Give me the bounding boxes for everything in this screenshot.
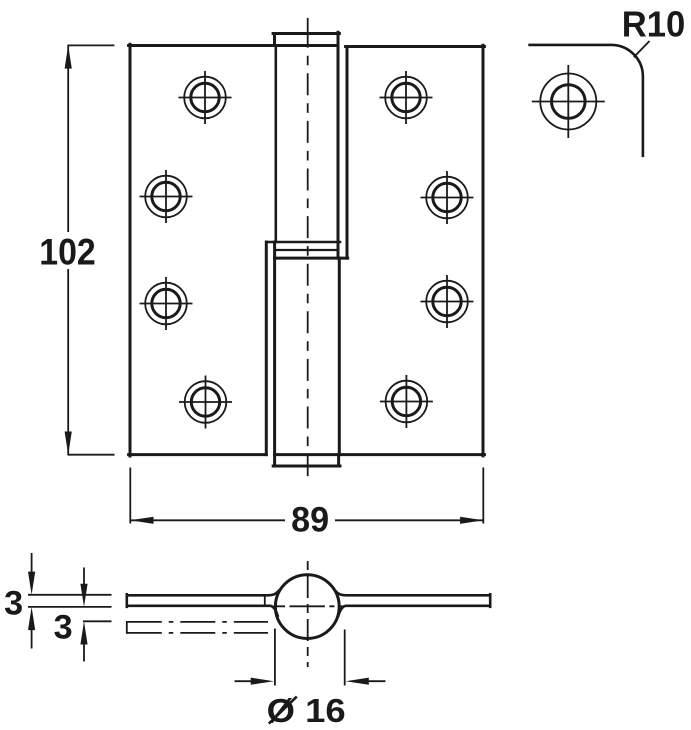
screw hole R2 bbox=[421, 171, 474, 224]
screw hole L4 bbox=[179, 376, 232, 429]
detail screw hole bbox=[532, 65, 605, 138]
phantom plate top edge bbox=[127, 621, 268, 623]
dimension 89 extension right bbox=[482, 468, 484, 524]
pin cap top bbox=[273, 32, 339, 258]
upper knuckle tube left edge bbox=[274, 46, 277, 243]
section: left plate bbox=[127, 591, 279, 616]
svg-text:89: 89 bbox=[291, 501, 329, 540]
right leaf bbox=[275, 45, 485, 456]
left leaf bbox=[129, 44, 338, 456]
dimension 102 extension bottom bbox=[67, 454, 114, 456]
dimension 89 line bbox=[130, 517, 483, 524]
phantom plate bottom edge bbox=[127, 632, 268, 634]
pin centerline bbox=[307, 18, 309, 48]
screw hole L3 bbox=[140, 277, 193, 330]
thickness extension line 2 bbox=[28, 606, 112, 608]
diameter 16 extension right bbox=[344, 630, 346, 686]
svg-text:3: 3 bbox=[4, 585, 23, 623]
screw hole R1 bbox=[380, 71, 433, 124]
section: left plate end line bbox=[264, 596, 266, 605]
thickness extension line 1 bbox=[28, 594, 112, 596]
section vertical centerline bbox=[307, 561, 309, 667]
diameter symbol slash emphasis bbox=[269, 697, 297, 724]
dimension 89 extension left bbox=[129, 468, 131, 524]
screw hole L1 bbox=[179, 71, 232, 124]
diameter 16 arrows bbox=[235, 678, 386, 685]
screw hole R3 bbox=[421, 275, 474, 328]
R10 corner detail outline bbox=[530, 45, 643, 156]
svg-text:102: 102 bbox=[39, 231, 96, 272]
knuckle joint lines bbox=[266, 242, 347, 258]
dimension 102 line bbox=[65, 45, 72, 454]
dimension 102 extension top bbox=[67, 44, 114, 46]
diameter 16 extension left bbox=[274, 629, 276, 686]
svg-text:3: 3 bbox=[54, 609, 73, 647]
section: right plate bbox=[335, 591, 490, 616]
dimension 3 arrows col A bbox=[28, 553, 35, 649]
section horizontal centerline bbox=[274, 605, 345, 607]
lower knuckle bbox=[266, 242, 340, 466]
screw hole R4 bbox=[380, 375, 433, 428]
svg-text:Ø 16: Ø 16 bbox=[267, 693, 346, 730]
section: knuckle circle bbox=[275, 575, 339, 639]
svg-text:R10: R10 bbox=[622, 4, 686, 45]
phantom plate end cap bbox=[126, 621, 128, 634]
screw hole L2 bbox=[140, 170, 193, 223]
thickness extension line 3 bbox=[83, 620, 112, 622]
dimension 3 arrows col B bbox=[80, 568, 87, 662]
R10 leader line bbox=[634, 41, 650, 57]
